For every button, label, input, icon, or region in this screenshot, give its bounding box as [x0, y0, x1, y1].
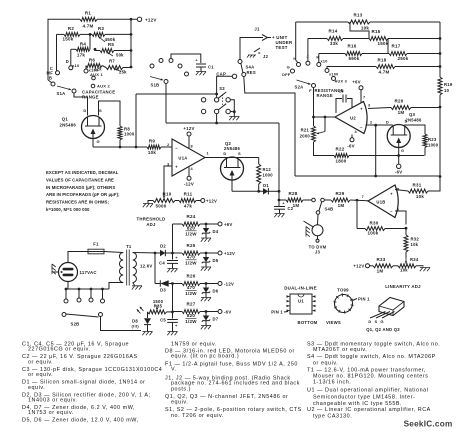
svg-text:S3: S3	[219, 86, 225, 91]
svg-text:R3: R3	[98, 26, 104, 31]
svg-text:12.6V: 12.6V	[140, 264, 152, 269]
svg-text:T1: T1	[126, 244, 132, 249]
svg-text:10k: 10k	[361, 26, 370, 31]
svg-text:+6V: +6V	[224, 222, 233, 227]
svg-text:2: 2	[370, 120, 372, 124]
svg-text:1/2W: 1/2W	[185, 231, 197, 236]
svg-text:R10: R10	[162, 191, 171, 196]
svg-text:x10: x10	[72, 63, 80, 68]
svg-text:-12V: -12V	[184, 181, 194, 186]
svg-text:PIN 1: PIN 1	[358, 297, 370, 302]
svg-text:1N753 or equiv.: 1N753 or equiv.	[28, 410, 74, 416]
svg-text:+6V: +6V	[352, 80, 361, 85]
svg-text:U2: U2	[350, 116, 356, 121]
svg-text:type CA3130.: type CA3130.	[313, 413, 352, 419]
svg-text:R25: R25	[186, 243, 195, 248]
svg-text:+12V: +12V	[145, 17, 157, 22]
svg-text:50k: 50k	[116, 52, 124, 57]
svg-text:+12V: +12V	[183, 126, 194, 131]
svg-text:S: S	[99, 108, 102, 113]
svg-text:R17: R17	[391, 44, 400, 49]
svg-text:7: 7	[363, 96, 365, 100]
svg-text:D: D	[66, 59, 69, 64]
svg-text:R18: R18	[377, 58, 386, 63]
svg-text:posts.): posts.)	[171, 387, 191, 393]
svg-text:1000: 1000	[124, 132, 135, 137]
svg-text:25k: 25k	[119, 70, 127, 75]
svg-text:1M: 1M	[338, 203, 345, 208]
svg-text:IN MICROFARADS (μF); OTHERS: IN MICROFARADS (μF); OTHERS	[46, 185, 115, 190]
svg-text:R35: R35	[154, 304, 163, 309]
svg-text:S1, S2 — 2-pole, 6-position ro: S1, S2 — 2-pole, 6-position rotary switc…	[165, 407, 302, 413]
svg-text:D: D	[368, 319, 371, 324]
svg-text:17k: 17k	[77, 53, 86, 58]
svg-text:equiv.: equiv.	[28, 385, 45, 391]
svg-text:DUAL-IN-LINE: DUAL-IN-LINE	[284, 286, 317, 291]
svg-text:150k: 150k	[377, 41, 388, 46]
svg-text:S1A: S1A	[57, 91, 66, 96]
svg-text:S: S	[405, 119, 408, 124]
svg-text:x10: x10	[321, 60, 328, 64]
svg-text:J2: J2	[263, 54, 269, 59]
svg-text:8: 8	[191, 145, 193, 149]
svg-text:R29: R29	[335, 191, 344, 196]
svg-text:D7: D7	[213, 317, 219, 322]
svg-text:+: +	[195, 58, 198, 63]
svg-text:1N759 or equiv.: 1N759 or equiv.	[171, 342, 217, 348]
svg-text:R26: R26	[186, 274, 195, 279]
svg-text:R30: R30	[369, 221, 378, 226]
svg-text:U1 — Dual operational amplifie: U1 — Dual operational amplifier, Nationa…	[307, 388, 428, 394]
svg-text:R24: R24	[186, 214, 195, 219]
svg-text:4.7M: 4.7M	[378, 70, 389, 75]
svg-text:R20: R20	[394, 99, 403, 104]
svg-text:Semiconductor type LM1458. Int: Semiconductor type LM1458. Inter-	[313, 395, 415, 401]
svg-text:10k: 10k	[416, 194, 425, 199]
svg-text:k=1000, M=1 000 000: k=1000, M=1 000 000	[46, 207, 90, 212]
svg-text:D: D	[386, 119, 389, 124]
svg-text:470: 470	[187, 285, 196, 290]
svg-text:PIN 1: PIN 1	[271, 310, 283, 315]
svg-text:or equiv.: or equiv.	[28, 359, 53, 365]
svg-text:RESISTANCES ARE IN OHMS;: RESISTANCES ARE IN OHMS;	[46, 200, 110, 205]
svg-text:R22: R22	[335, 147, 344, 152]
svg-text:+: +	[175, 255, 178, 260]
svg-text:150k: 150k	[62, 37, 73, 42]
svg-text:R33: R33	[376, 257, 385, 262]
svg-text:1000: 1000	[263, 173, 274, 178]
svg-text:10: 10	[444, 88, 450, 93]
svg-text:C3: C3	[338, 89, 344, 94]
svg-text:6: 6	[397, 208, 399, 212]
svg-text:VIEWS: VIEWS	[326, 320, 341, 325]
svg-text:S4B: S4B	[325, 207, 334, 212]
svg-text:+: +	[360, 107, 363, 112]
svg-text:U2 — Linear IC operational amp: U2 — Linear IC operational amplifier, RC…	[307, 407, 431, 413]
svg-text:ADJ: ADJ	[146, 222, 156, 227]
svg-text:470: 470	[187, 255, 196, 260]
svg-text:+: +	[175, 323, 178, 328]
svg-text:47k: 47k	[184, 204, 193, 209]
svg-text:-12V: -12V	[224, 281, 234, 286]
svg-text:MTA206T or equiv.: MTA206T or equiv.	[313, 347, 367, 353]
svg-text:10k: 10k	[400, 267, 408, 272]
svg-text:R19: R19	[444, 82, 453, 87]
svg-text:S4A: S4A	[246, 65, 255, 70]
svg-text:D: D	[223, 151, 226, 156]
svg-text:U1: U1	[298, 299, 304, 304]
svg-text:G: G	[401, 149, 404, 153]
svg-text:R16: R16	[347, 44, 356, 49]
svg-text:TO99: TO99	[337, 288, 349, 293]
svg-text:S2B: S2B	[71, 322, 80, 327]
svg-text:RANGE: RANGE	[82, 94, 99, 99]
svg-text:R32: R32	[411, 237, 420, 242]
svg-text:2N5486: 2N5486	[224, 146, 241, 151]
svg-text:F: F	[309, 88, 312, 93]
svg-text:250k: 250k	[397, 56, 408, 61]
svg-text:LINEARITY ADJ: LINEARITY ADJ	[385, 284, 421, 289]
svg-text:=: =	[258, 51, 261, 56]
svg-text:−: −	[390, 209, 393, 214]
svg-text:S4 — Dpdt toggle switch, Alco: S4 — Dpdt toggle switch, Alco no. MTA206…	[307, 354, 436, 360]
svg-text:10k: 10k	[148, 150, 157, 155]
svg-text:1/2W: 1/2W	[185, 260, 197, 265]
svg-text:R5: R5	[108, 42, 114, 47]
svg-text:F1: F1	[93, 242, 99, 247]
svg-text:B: B	[49, 76, 52, 81]
svg-text:AUX 2: AUX 2	[97, 84, 111, 89]
svg-text:−: −	[360, 125, 363, 130]
svg-text:R27: R27	[186, 302, 195, 307]
svg-text:33k: 33k	[330, 41, 339, 46]
svg-text:S: S	[375, 319, 378, 324]
svg-text:R13: R13	[353, 13, 362, 18]
svg-text:D1: D1	[263, 183, 269, 188]
svg-text:R14: R14	[328, 29, 337, 34]
svg-text:R12: R12	[263, 167, 272, 172]
svg-text:x100: x100	[329, 73, 338, 77]
svg-text:590k: 590k	[348, 56, 359, 61]
svg-text:2N5486: 2N5486	[405, 117, 422, 122]
svg-text:+12V: +12V	[224, 251, 235, 256]
svg-text:AUX 1: AUX 1	[90, 72, 104, 77]
svg-text:J1: J1	[254, 27, 260, 32]
svg-text:7: 7	[362, 195, 364, 199]
svg-text:equiv.: equiv.	[171, 399, 188, 405]
svg-text:S: S	[238, 151, 241, 156]
svg-text:1M: 1M	[377, 268, 384, 273]
svg-text:R4: R4	[80, 41, 86, 46]
svg-text:820: 820	[187, 313, 196, 318]
svg-text:D4: D4	[213, 229, 219, 234]
svg-text:CAP: CAP	[216, 71, 226, 76]
svg-text:R7: R7	[109, 59, 115, 64]
svg-text:117VAC: 117VAC	[80, 270, 97, 275]
svg-text:R28: R28	[288, 191, 297, 196]
svg-text:changeable with IC type 555B.: changeable with IC type 555B.	[313, 401, 402, 407]
svg-text:2: 2	[167, 143, 169, 147]
svg-text:+12V: +12V	[206, 198, 217, 203]
svg-text:R11: R11	[184, 191, 193, 196]
svg-text:1: 1	[207, 152, 209, 156]
svg-text:820: 820	[187, 226, 196, 231]
svg-text:4.7M: 4.7M	[82, 24, 93, 29]
svg-text:J: J	[306, 54, 308, 59]
svg-text:D3: D3	[160, 288, 166, 293]
svg-text:−: −	[175, 145, 178, 150]
svg-text:5: 5	[397, 188, 399, 192]
svg-text:D2: D2	[160, 244, 166, 249]
svg-text:U1A: U1A	[178, 156, 187, 161]
svg-text:G: G	[287, 65, 290, 70]
svg-text:R9: R9	[149, 138, 155, 143]
svg-text:1/2W: 1/2W	[185, 319, 197, 324]
svg-text:3: 3	[167, 162, 169, 166]
svg-text:R31: R31	[412, 183, 421, 188]
svg-text:no. T206 or equiv.: no. T206 or equiv.	[171, 413, 224, 419]
svg-text:1-13/16 inch.: 1-13/16 inch.	[313, 380, 351, 386]
svg-text:10k: 10k	[411, 242, 419, 247]
svg-text:+: +	[390, 192, 393, 197]
svg-text:D5: D5	[213, 258, 219, 263]
svg-text:S1B: S1B	[151, 83, 160, 88]
svg-text:S2A: S2A	[295, 85, 304, 90]
svg-text:VALUES OF CAPACITANCE ARE: VALUES OF CAPACITANCE ARE	[46, 177, 114, 182]
svg-text:or equiv.: or equiv.	[28, 372, 53, 378]
svg-text:-6V: -6V	[224, 309, 231, 314]
svg-text:1000: 1000	[428, 142, 439, 147]
svg-text:V.: V.	[171, 367, 177, 373]
svg-text:-6V: -6V	[347, 144, 354, 149]
svg-text:C4: C4	[159, 261, 165, 266]
svg-text:AUX 3: AUX 3	[335, 80, 347, 84]
svg-text:C5: C5	[160, 318, 166, 323]
svg-text:D6: D6	[213, 289, 219, 294]
svg-text:3: 3	[368, 104, 370, 108]
svg-text:R15: R15	[371, 29, 380, 34]
svg-text:G: G	[97, 139, 100, 144]
svg-text:J3: J3	[315, 250, 321, 255]
svg-text:H: H	[293, 56, 296, 61]
svg-text:5000: 5000	[155, 204, 166, 209]
svg-text:OFF: OFF	[282, 72, 291, 77]
svg-text:or equiv.: or equiv.	[313, 361, 338, 367]
svg-text:+: +	[282, 201, 285, 206]
svg-text:TEST: TEST	[276, 45, 288, 50]
svg-text:R6: R6	[89, 57, 95, 62]
svg-text:THRESHOLD: THRESHOLD	[137, 217, 166, 222]
svg-text:BOTTOM: BOTTOM	[297, 320, 317, 325]
svg-text:2000: 2000	[300, 134, 311, 139]
svg-text:Q3: Q3	[409, 112, 416, 117]
svg-text:2N5486: 2N5486	[59, 123, 76, 128]
svg-text:F1 — 1/2-A pigtail fuse, Buss: F1 — 1/2-A pigtail fuse, Buss MDV 1/2 A,…	[165, 361, 298, 367]
svg-text:1M: 1M	[293, 203, 300, 208]
svg-text:1M: 1M	[398, 110, 405, 115]
svg-text:equiv. (lit on pc board.): equiv. (lit on pc board.)	[171, 354, 239, 360]
svg-text:package no. 274-661 includes r: package no. 274-661 includes red and bla…	[171, 381, 300, 387]
svg-text:SeekIC.com: SeekIC.com	[404, 420, 453, 429]
svg-text:Mouser no. 81PG120. Mounting c: Mouser no. 81PG120. Mounting centers	[313, 373, 428, 379]
svg-text:(lit): (lit)	[132, 323, 140, 328]
svg-text:G: G	[380, 319, 383, 324]
svg-text:1800: 1800	[335, 159, 346, 164]
svg-text:RES: RES	[247, 70, 256, 75]
svg-text:RANGE: RANGE	[317, 93, 333, 98]
svg-text:R23: R23	[428, 137, 437, 142]
svg-text:1N4003 or equiv.: 1N4003 or equiv.	[28, 398, 77, 404]
svg-text:+: +	[175, 165, 178, 170]
svg-text:U1B: U1B	[376, 200, 385, 205]
svg-text:22k: 22k	[94, 67, 102, 72]
svg-text:Q1, Q2 AND Q3: Q1, Q2 AND Q3	[366, 327, 400, 332]
svg-text:C1: C1	[208, 65, 214, 70]
svg-text:100k: 100k	[367, 231, 378, 236]
svg-text:D: D	[83, 108, 86, 113]
svg-text:R34: R34	[410, 257, 419, 262]
svg-text:1/2W: 1/2W	[185, 291, 197, 296]
svg-text:Q1: Q1	[62, 117, 69, 122]
svg-text:D5, D6 — Zener diode, 12.0 V,: D5, D6 — Zener diode, 12.0 V, 400 mW,	[22, 418, 139, 424]
svg-text:-6V: -6V	[395, 169, 402, 174]
svg-text:R1: R1	[85, 11, 91, 16]
svg-text:R21: R21	[301, 128, 310, 133]
svg-text:+12V: +12V	[353, 263, 364, 268]
svg-text:EXCEPT AS INDICATED, DECIMAL: EXCEPT AS INDICATED, DECIMAL	[46, 170, 119, 175]
svg-text:ARE IN PICOFARADS (pF OR μμF);: ARE IN PICOFARADS (pF OR μμF);	[46, 192, 120, 197]
svg-text:R2: R2	[68, 26, 74, 31]
svg-text:227G016CG or equiv.: 227G016CG or equiv.	[28, 347, 91, 353]
svg-text:K: K	[316, 55, 319, 60]
